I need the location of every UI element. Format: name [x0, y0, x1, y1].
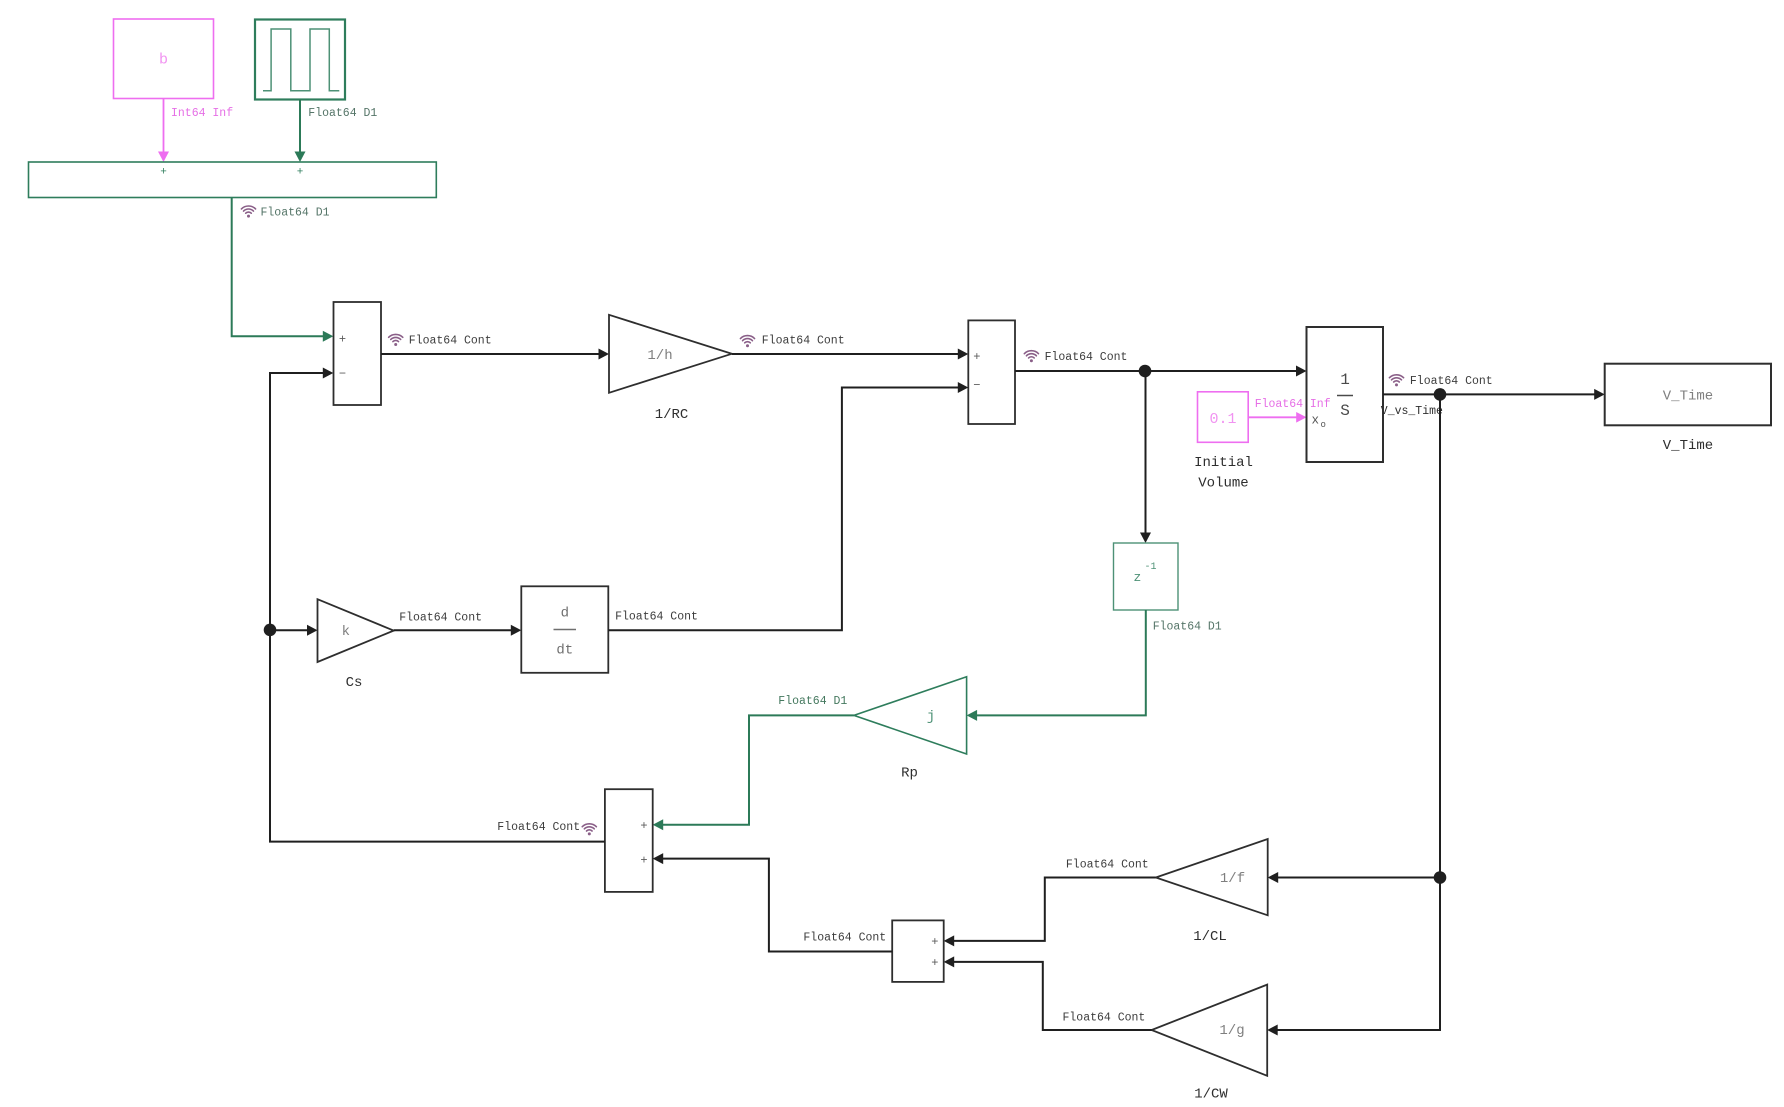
svg-text:Float64 Cont: Float64 Cont: [497, 821, 580, 834]
label Float64 Cont at sum D output: [497, 821, 596, 836]
svg-text:+: +: [160, 167, 167, 179]
svg-text:Float64 Cont: Float64 Cont: [1045, 351, 1128, 364]
svg-text:Float64 D1: Float64 D1: [778, 695, 847, 708]
terminator block V_Time: [1605, 364, 1771, 426]
svg-text:1: 1: [1340, 371, 1350, 389]
wire node down right side to 1/g: [1267, 394, 1440, 1035]
svg-text:+: +: [297, 167, 304, 179]
wire sum A to gain 1/h: [381, 349, 609, 360]
sum block A: [334, 302, 382, 405]
svg-text:Float64 Cont: Float64 Cont: [1066, 858, 1149, 871]
derivative block d/dt: [521, 586, 608, 673]
svg-text:b: b: [159, 52, 168, 69]
wire node to gain k: [270, 625, 318, 636]
wire sum C to sum D second plus: [653, 853, 893, 951]
svg-text:Float64 Cont: Float64 Cont: [803, 932, 886, 945]
svg-text:-1: -1: [1145, 562, 1157, 573]
svg-text:d: d: [561, 606, 569, 622]
wire 1/g to sum C second plus: [944, 956, 1152, 1030]
svg-text:+: +: [931, 956, 938, 970]
wire sum B to integrator: [1015, 366, 1307, 377]
wire wide sum to sum A plus: [232, 198, 334, 342]
gain 1/f (1/CL): [1156, 839, 1268, 915]
svg-text:+: +: [640, 819, 647, 833]
svg-text:+: +: [973, 350, 980, 364]
svg-text:Cs: Cs: [346, 675, 363, 691]
label Float64 Cont after sum A: [389, 334, 492, 347]
svg-text:Float64 D1: Float64 D1: [1153, 620, 1222, 633]
integrator block 1/S: [1307, 327, 1384, 462]
svg-text:1/CW: 1/CW: [1194, 1086, 1228, 1102]
svg-text:+: +: [640, 853, 647, 867]
wire pulse to sum: [295, 100, 306, 163]
wire b to sum: [158, 99, 169, 162]
node on right vertical: [1434, 871, 1447, 884]
gain k (Cs): [318, 599, 394, 662]
wire sum D to sum A minus: [270, 368, 605, 842]
svg-text:Volume: Volume: [1198, 476, 1248, 492]
label Initial Volume: [1194, 455, 1253, 492]
sum block C: [892, 920, 944, 982]
svg-text:Float64 Cont: Float64 Cont: [409, 335, 492, 348]
constant block 0.1: [1198, 392, 1249, 443]
svg-text:Float64 Cont: Float64 Cont: [615, 611, 698, 624]
svg-text:1/g: 1/g: [1219, 1023, 1244, 1039]
svg-text:Float64 Inf: Float64 Inf: [1255, 398, 1331, 411]
svg-text:+: +: [339, 332, 346, 346]
svg-text:dt: dt: [556, 643, 573, 659]
svg-text:V_vs_Time: V_vs_Time: [1381, 405, 1443, 418]
wire 1/f to sum C first plus: [944, 878, 1156, 947]
svg-text:−: −: [339, 367, 346, 381]
wire 0.1 to integrator Xo: [1248, 412, 1306, 423]
svg-text:−: −: [973, 378, 980, 392]
svg-text:0.1: 0.1: [1209, 411, 1236, 428]
label Float64 Cont after sum B: [1024, 351, 1127, 364]
svg-text:1/f: 1/f: [1220, 871, 1245, 887]
svg-text:+: +: [931, 935, 938, 949]
svg-text:k: k: [342, 624, 350, 640]
node after integrator: [1434, 388, 1447, 401]
wire node to 1/f: [1268, 872, 1440, 883]
svg-text:1/RC: 1/RC: [655, 407, 689, 423]
svg-text:j: j: [927, 709, 935, 725]
gain 1/g (1/CW): [1152, 985, 1268, 1076]
svg-text:V_Time: V_Time: [1663, 438, 1713, 454]
svg-text:1/h: 1/h: [647, 348, 672, 364]
node on feedback wire: [264, 624, 277, 637]
svg-text:S: S: [1340, 402, 1350, 420]
label Float64 D1 after wide sum: [241, 206, 329, 219]
svg-text:Initial: Initial: [1194, 455, 1253, 471]
wire k to d/dt: [394, 625, 522, 636]
svg-text:z: z: [1134, 570, 1142, 585]
wire 1/h to sum B plus: [732, 349, 969, 360]
svg-text:Rp: Rp: [901, 766, 918, 782]
svg-text:1/CL: 1/CL: [1193, 929, 1227, 945]
svg-text:Float64 Cont: Float64 Cont: [1063, 1012, 1146, 1025]
wire integrator to V_Time: [1383, 389, 1605, 400]
wide sum block: [29, 162, 437, 198]
wire j to sum D first plus: [653, 715, 854, 830]
wire d/dt to sum B minus: [608, 382, 968, 630]
svg-text:V_Time: V_Time: [1663, 388, 1713, 404]
constant block b: [114, 19, 214, 99]
svg-text:Float64 Cont: Float64 Cont: [1410, 375, 1493, 388]
wire z-1 to gain j: [967, 610, 1146, 721]
svg-text:Float64 D1: Float64 D1: [308, 107, 377, 120]
svg-text:Float64 Cont: Float64 Cont: [399, 611, 482, 624]
pulse generator block: [255, 20, 345, 100]
label Float64 Cont after integrator: [1389, 375, 1492, 388]
gain j (Rp): [854, 677, 967, 754]
svg-text:Float64 D1: Float64 D1: [261, 207, 330, 220]
sum block D: [605, 789, 653, 892]
svg-text:Float64 Cont: Float64 Cont: [762, 335, 845, 348]
svg-text:Int64 Inf: Int64 Inf: [171, 107, 233, 120]
wire node down to z-1: [1140, 371, 1151, 543]
svg-text:x: x: [1312, 413, 1320, 427]
node after sum B: [1139, 365, 1152, 378]
label Float64 Cont after 1/h: [740, 335, 844, 348]
z-1 unit delay block: [1114, 543, 1179, 610]
sum block B: [968, 320, 1015, 424]
svg-text:o: o: [1321, 420, 1326, 430]
gain 1/h: [609, 315, 732, 393]
